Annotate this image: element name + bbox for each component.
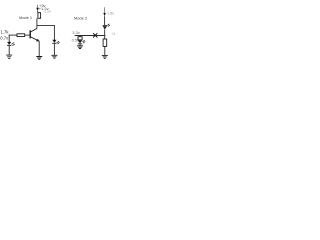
wire LED D1 to ground	[53, 44, 55, 55]
svg-text:1.7k: 1.7k	[1, 30, 10, 35]
wire LED D2 to ground	[8, 46, 10, 55]
resistor R3 (right chain box)	[103, 39, 107, 46]
resistor R1 (small box in rail)	[38, 13, 41, 19]
svg-text:Mode 2: Mode 2	[74, 15, 87, 20]
supply arrow V2 (right, pointing down)	[104, 7, 106, 13]
wire node to LED D1 branch	[37, 24, 55, 26]
wire R2 to base	[25, 34, 30, 36]
LED D1	[52, 40, 59, 44]
wire emitter to ground	[38, 41, 40, 56]
wire LED D3 down to node	[104, 30, 106, 40]
wire supply to resistor R1	[37, 11, 39, 13]
wire node down to LED D2	[8, 35, 10, 42]
wire branch down at x80	[79, 35, 81, 38]
LED D2	[7, 42, 15, 46]
ground G5	[102, 55, 108, 58]
wire down to LED D1	[53, 25, 55, 40]
ground G1	[6, 55, 12, 58]
svg-text:0.7v: 0.7v	[0, 35, 9, 40]
LED D3 (bar above triangle)	[103, 24, 110, 30]
resistor R4 (small box)	[78, 37, 82, 40]
ground G2	[36, 57, 42, 60]
svg-text:+1.2v: +1.2v	[39, 6, 49, 11]
wire R1 to collector node	[36, 18, 38, 28]
wire input node to resistor R2	[9, 34, 17, 36]
wire R3 to ground	[104, 46, 106, 55]
transistor Q1 (NPN)	[30, 29, 39, 42]
wire LED D4 to ground	[79, 44, 81, 45]
svg-text:3.3v: 3.3v	[72, 30, 80, 35]
svg-text:1k: 1k	[112, 32, 116, 36]
svg-text:1.5v: 1.5v	[107, 11, 114, 15]
lamp X symbol	[93, 33, 97, 37]
supply arrow V1 (left, pointing down)	[37, 5, 39, 8]
main wire (Mode 2 horizontal)	[75, 35, 106, 37]
LED D4	[78, 40, 86, 44]
svg-text:Mode 1: Mode 1	[19, 15, 32, 20]
ground G4	[77, 46, 83, 49]
resistor R2 (base resistor box)	[17, 34, 25, 37]
ground G3	[51, 55, 57, 58]
wire arrow to LED D3	[104, 16, 106, 25]
